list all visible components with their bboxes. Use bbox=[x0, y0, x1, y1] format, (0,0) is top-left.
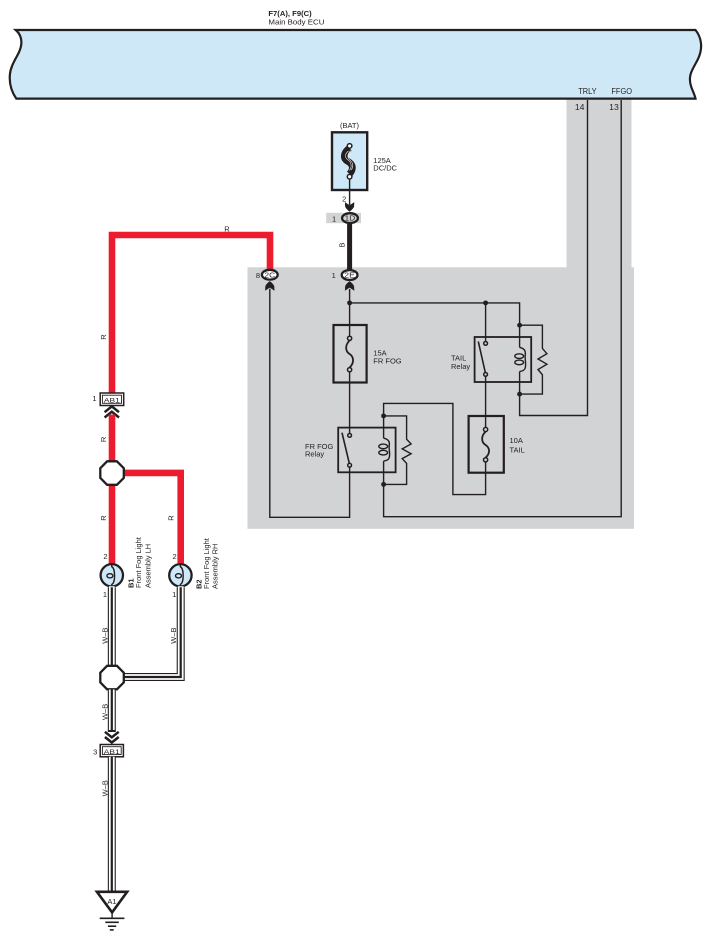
svg-text:TAIL: TAIL bbox=[510, 445, 525, 454]
wire TAIL switch to 10A fuse bbox=[485, 376, 487, 427]
node dot FR FOG coil bottom bbox=[381, 482, 386, 487]
pin number 14 bbox=[575, 102, 585, 112]
FR FOG relay switch bbox=[342, 433, 352, 467]
red wire AB1 to splice octagon bbox=[109, 415, 116, 464]
svg-text:1: 1 bbox=[92, 394, 96, 403]
connector AB1 pin 1 bbox=[100, 393, 124, 406]
svg-text:1: 1 bbox=[172, 590, 176, 599]
wire horizontal 2E node to TAIL relay bbox=[350, 303, 520, 325]
node dot TAIL coil bottom bbox=[517, 392, 522, 397]
pin number 1 at 1D bbox=[332, 214, 336, 223]
node dot at TAIL switch branch bbox=[483, 300, 488, 305]
arrow into 2E from below bbox=[345, 281, 354, 291]
connector AB1 pin 3 bbox=[100, 745, 123, 757]
wire label B bbox=[337, 242, 346, 247]
ECU band Main Body ECU bbox=[10, 30, 701, 99]
chevrons below AB1 pointing up bbox=[105, 406, 119, 417]
W-B wire B1 to octagon2 bbox=[108, 586, 116, 666]
svg-text:2: 2 bbox=[103, 552, 107, 561]
pin number 2 at B1 bbox=[103, 552, 107, 561]
label 125A DC/DC bbox=[373, 156, 397, 172]
svg-text:3: 3 bbox=[93, 748, 97, 757]
fog lamp B1 bbox=[101, 564, 123, 588]
svg-text:R: R bbox=[99, 334, 108, 340]
label FR FOG Relay bbox=[305, 442, 333, 459]
wire 10A fuse bottom to FR FOG coil top bbox=[384, 403, 486, 494]
wire label W-B below octagon2 bbox=[100, 704, 109, 720]
wire label R top bbox=[224, 225, 230, 234]
svg-text:2: 2 bbox=[173, 552, 177, 561]
chevrons above AB1 pin3 pointing down bbox=[105, 732, 119, 743]
W-B wire octagon2 to AB1 pin3 bbox=[108, 690, 116, 733]
svg-text:Main Body ECU: Main Body ECU bbox=[268, 18, 324, 27]
wire TAIL switch feed bbox=[485, 303, 487, 342]
wire label R middle bbox=[99, 436, 108, 442]
svg-text:Assembly RH: Assembly RH bbox=[211, 544, 220, 589]
svg-text:Relay: Relay bbox=[305, 450, 324, 459]
node dot at 2E junction bbox=[347, 300, 352, 305]
relay block gray box bbox=[248, 267, 635, 529]
pin number 1 at B2 bbox=[172, 590, 176, 599]
connector 2C oval bbox=[262, 270, 278, 280]
node dot TAIL coil top bbox=[517, 323, 522, 328]
wire TRLY pin 14 to TAIL relay coil bottom bbox=[520, 100, 588, 416]
pin number 3 at AB1 bbox=[93, 748, 97, 757]
TAIL relay resistor bbox=[520, 325, 547, 394]
connector 2E oval bbox=[342, 270, 358, 280]
label B1 Front Fog Light Assembly LH bbox=[127, 536, 153, 588]
label Main Body ECU bbox=[268, 18, 324, 27]
wire label W-B below AB1 bbox=[100, 780, 109, 796]
wire 15A fuse to FR FOG relay switch bbox=[349, 372, 351, 434]
TAIL relay switch bbox=[478, 342, 487, 377]
W-B wire AB1 pin3 to ground bbox=[108, 757, 116, 892]
svg-text:FFGO: FFGO bbox=[611, 86, 632, 96]
label F7(A), F9(C) bbox=[268, 9, 312, 18]
svg-text:10A: 10A bbox=[510, 436, 523, 445]
svg-text:2C: 2C bbox=[265, 270, 276, 279]
connector 2C wire to FR FOG switch bbox=[270, 289, 350, 518]
svg-text:W–B: W–B bbox=[100, 627, 109, 643]
pin label TRLY bbox=[578, 86, 597, 96]
fog lamp B2 bbox=[169, 564, 191, 588]
label TAIL Relay bbox=[451, 354, 470, 371]
relay FR FOG box bbox=[338, 428, 395, 473]
wire fuse bottom to connector 1D bbox=[349, 179, 351, 205]
FR FOG relay resistor bbox=[384, 416, 412, 485]
svg-text:R: R bbox=[166, 515, 175, 521]
ground point A1 bbox=[97, 892, 127, 913]
svg-text:R: R bbox=[99, 436, 108, 442]
svg-text:TRLY: TRLY bbox=[578, 86, 597, 96]
svg-text:Relay: Relay bbox=[451, 362, 470, 371]
W-B wire B2 to octagon2 bbox=[124, 586, 181, 677]
pin number 2 above 1D bbox=[342, 195, 346, 204]
label B2 Front Fog Light Assembly RH bbox=[195, 537, 220, 589]
svg-text:Assembly LH: Assembly LH bbox=[143, 544, 152, 588]
wire label R left vertical bbox=[99, 334, 108, 340]
red wire 2C to AB1 bbox=[112, 235, 270, 393]
pin number 1 at B1 bbox=[103, 590, 107, 599]
svg-text:13: 13 bbox=[609, 102, 619, 112]
red wire octagon to B2 bbox=[124, 473, 181, 564]
svg-text:W–B: W–B bbox=[100, 704, 109, 720]
connector 1D oval bbox=[342, 213, 358, 223]
label 10A TAIL bbox=[510, 436, 525, 454]
svg-text:B: B bbox=[337, 242, 346, 247]
fusible link 125A DC/DC bbox=[332, 132, 367, 190]
pin number 2 at B2 bbox=[173, 552, 177, 561]
svg-text:W–B: W–B bbox=[100, 780, 109, 796]
wire label R above B1 bbox=[99, 515, 108, 521]
wire label W-B right bbox=[169, 627, 178, 643]
fuse 10A TAIL bbox=[469, 416, 504, 473]
svg-text:(BAT): (BAT) bbox=[340, 121, 360, 130]
arrow into connector 1D bbox=[345, 202, 354, 212]
svg-text:1: 1 bbox=[103, 590, 107, 599]
svg-text:W–B: W–B bbox=[169, 627, 178, 643]
wire label W-B left bbox=[100, 627, 109, 643]
TAIL relay coil bbox=[515, 325, 526, 394]
wire B between 1D and 2E bbox=[347, 222, 352, 271]
red wire octagon to B1 bbox=[109, 484, 116, 564]
wire 2E down to 15A fuse bbox=[349, 289, 351, 338]
svg-text:8: 8 bbox=[256, 271, 260, 280]
pin label FFGO bbox=[611, 86, 632, 96]
svg-text:DC/DC: DC/DC bbox=[373, 163, 397, 172]
node dot FR FOG coil top bbox=[381, 413, 386, 418]
wire label R above B2 bbox=[166, 515, 175, 521]
FR FOG relay coil bbox=[379, 416, 390, 485]
svg-text:1: 1 bbox=[332, 271, 336, 280]
pin number 8 at 2C bbox=[256, 271, 260, 280]
pin number 1 at AB1 bbox=[92, 394, 96, 403]
relay TAIL box bbox=[475, 337, 532, 382]
svg-text:Front Fog Light: Front Fog Light bbox=[134, 536, 143, 588]
junction block gray strip pins 14/13 bbox=[567, 99, 632, 268]
svg-text:AB1: AB1 bbox=[104, 397, 120, 404]
svg-text:1: 1 bbox=[332, 214, 336, 223]
wire FFGO pin 13 to FR FOG relay coil bottom bbox=[384, 100, 622, 517]
svg-text:2E: 2E bbox=[344, 271, 355, 280]
svg-text:AB1: AB1 bbox=[104, 749, 120, 756]
pin number 13 bbox=[609, 102, 619, 112]
svg-text:R: R bbox=[224, 225, 230, 234]
label (BAT) bbox=[340, 121, 360, 130]
label 15A FR FOG bbox=[373, 349, 401, 366]
svg-text:R: R bbox=[99, 515, 108, 521]
ground symbol bbox=[100, 912, 125, 930]
svg-text:14: 14 bbox=[575, 102, 585, 112]
svg-text:FR FOG: FR FOG bbox=[373, 357, 401, 366]
svg-text:2: 2 bbox=[342, 195, 346, 204]
fuse 15A FR FOG bbox=[334, 325, 367, 383]
splice octagon J2 bbox=[100, 666, 124, 690]
svg-text:1D: 1D bbox=[345, 214, 356, 223]
connector 1D gray block bbox=[326, 213, 361, 223]
arrow into 2C from below bbox=[265, 281, 274, 291]
svg-text:A1: A1 bbox=[107, 897, 116, 906]
splice octagon J1 bbox=[100, 461, 124, 485]
pin number 1 at 2E bbox=[332, 271, 336, 280]
